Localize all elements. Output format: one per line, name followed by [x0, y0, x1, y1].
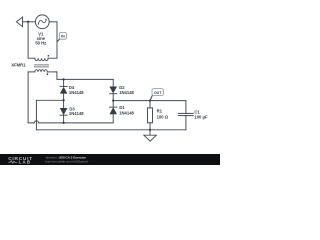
diode D4 — [60, 86, 68, 93]
node: right midpoint — [112, 99, 114, 101]
OUT net flag — [150, 89, 163, 101]
node: R1 bottom / ground — [149, 129, 151, 131]
C1 top lead — [185, 101, 187, 114]
node: top rail / D4 cathode — [62, 78, 64, 80]
wire triangle to source — [23, 21, 36, 23]
transformer XFMR1 primary winding — [35, 58, 48, 60]
R1 bottom lead — [149, 123, 151, 130]
CircuitLab logo — [8, 156, 33, 165]
footer bar — [0, 154, 220, 165]
wire D2 cathode to right midpoint to D1 cathode — [112, 94, 114, 107]
svg-text:http://circuitlab.com/c/552gkw: http://circuitlab.com/c/552gkwfx — [45, 159, 88, 163]
svg-text:D1: D1 — [119, 105, 125, 110]
labels — [11, 32, 208, 120]
input flag triangle — [16, 17, 22, 27]
svg-text:100 Ω: 100 Ω — [157, 114, 169, 119]
capacitor C1 plates — [179, 112, 194, 114]
secondary left lead — [28, 71, 35, 73]
wire left vertical from junction down to primary — [28, 22, 35, 58]
sine glyph inside V1 — [38, 20, 46, 25]
wire top rail corner down to D2 — [112, 79, 114, 86]
diode D3 — [60, 108, 68, 115]
resistor R1 box — [148, 108, 153, 123]
C1 bottom lead — [185, 116, 187, 130]
wire secondary left down and bottom rail with hop to D1 — [28, 72, 113, 123]
IN net flag — [57, 32, 67, 41]
wire right vertical down to primary — [48, 22, 57, 58]
svg-text:1N4148: 1N4148 — [69, 111, 84, 116]
wire secondary right down to bridge top rail — [57, 72, 113, 80]
transformer core lines — [34, 64, 48, 66]
secondary right lead — [47, 71, 57, 73]
svg-text:100 µF: 100 µF — [194, 114, 208, 119]
voltage source V1 circle — [35, 15, 49, 29]
svg-text:XFMR1: XFMR1 — [11, 63, 26, 68]
transformer secondary winding — [35, 70, 47, 72]
net D wire right midpoint to R1 and C1 — [113, 100, 186, 102]
svg-text:1N4148: 1N4148 — [119, 90, 134, 95]
ground symbol — [144, 130, 156, 141]
wire left midpoint to net C — [36, 99, 63, 101]
svg-text:R1: R1 — [157, 108, 163, 113]
svg-text:1N4148: 1N4148 — [119, 111, 134, 116]
diode D2 — [109, 87, 117, 94]
svg-text:LAB: LAB — [19, 160, 32, 165]
svg-text:OUT: OUT — [154, 91, 162, 95]
node: bottom rail / D3 cathode — [62, 122, 64, 124]
R1 top lead — [149, 101, 151, 108]
wire source to right corner — [49, 21, 57, 23]
wire D4 anode to left midpoint to D3 anode — [63, 94, 65, 108]
wire D3 cathode down to bottom rail — [63, 115, 65, 123]
node: left midpoint — [62, 99, 64, 101]
svg-text:IN: IN — [61, 35, 65, 39]
node: input junction — [27, 21, 29, 23]
node: R1 top — [149, 99, 151, 101]
transformer primary polarity dot — [48, 55, 50, 57]
net C bottom wire to C1 — [36, 129, 186, 131]
transformer secondary polarity dot — [47, 73, 49, 75]
net C vertical crossing under hop — [35, 100, 37, 130]
junction dots — [27, 21, 151, 131]
wire D4 cathode up to rail — [63, 79, 65, 86]
svg-text:1N4148: 1N4148 — [69, 90, 84, 95]
diode D1 — [109, 107, 117, 114]
svg-text:50 Hz: 50 Hz — [35, 41, 46, 46]
